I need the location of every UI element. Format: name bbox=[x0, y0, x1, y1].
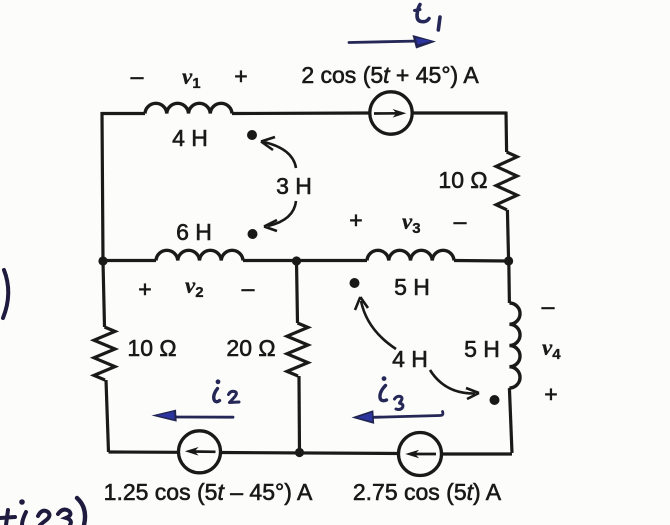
wire mid horizontal center bbox=[243, 259, 367, 262]
coupling arrow 3H lower bbox=[264, 201, 296, 231]
svg-text:2.75 cos (5t) A: 2.75 cos (5t) A bbox=[353, 479, 502, 505]
coupling dot on L2 bbox=[248, 229, 258, 239]
wire right lower vertical bbox=[509, 388, 512, 453]
handwritten arrow i3 bbox=[352, 410, 443, 424]
handwritten i3 label bbox=[380, 376, 403, 409]
svg-text:4 H: 4 H bbox=[172, 125, 208, 151]
wire right below mid bbox=[507, 261, 511, 303]
coupling arrow 4H lower bbox=[430, 370, 479, 399]
wire left vertical lower bbox=[106, 380, 109, 452]
svg-text:–: – bbox=[542, 293, 555, 319]
wire right upper vertical bbox=[504, 112, 508, 153]
inductor L4 5 H (right vertical) bbox=[509, 303, 520, 388]
inductor L3 5 H (middle-right) bbox=[367, 250, 454, 260]
junction node bottom-center bbox=[295, 448, 304, 457]
wire middle vertical upper bbox=[297, 261, 298, 323]
wire bottom left segment bbox=[109, 450, 180, 453]
inductor L2 6 H (middle) bbox=[156, 250, 243, 260]
coupling dot on L4 bbox=[490, 395, 500, 405]
handwritten i2 label bbox=[214, 379, 239, 402]
current source I3 2.75cos(5t) bbox=[399, 433, 442, 476]
svg-text:20 Ω: 20 Ω bbox=[226, 335, 275, 361]
svg-text:–: – bbox=[454, 208, 467, 234]
svg-text:–: – bbox=[242, 275, 255, 301]
wire mid horizontal left bbox=[103, 259, 156, 262]
svg-text:+: + bbox=[234, 63, 247, 89]
svg-text:4 H: 4 H bbox=[392, 346, 428, 372]
svg-text:5 H: 5 H bbox=[464, 336, 500, 362]
svg-text:2 cos (5t + 45°) A: 2 cos (5t + 45°) A bbox=[301, 62, 479, 88]
handwritten i1 label bbox=[415, 5, 441, 31]
svg-text:3 H: 3 H bbox=[276, 173, 312, 199]
wire top-left horizontal segment bbox=[101, 112, 145, 115]
junction node mid-center bbox=[292, 256, 301, 265]
resistor R1 10ohm (right) bbox=[496, 152, 517, 210]
coupling arrow 4H upper bbox=[355, 297, 396, 349]
coupling dot on L3 bbox=[350, 278, 360, 288]
handwritten paren left edge bbox=[3, 270, 8, 318]
svg-text:+: + bbox=[544, 381, 557, 407]
inductor L1 4 H (top) bbox=[145, 103, 232, 113]
wire middle vertical lower bbox=[297, 376, 301, 453]
coupling dot on L1 bbox=[247, 130, 257, 140]
wire right middle vertical bbox=[507, 210, 508, 261]
junction node right-mid bbox=[504, 256, 513, 265]
wire top-right horizontal segment bbox=[412, 111, 506, 114]
wire bottom middle segment bbox=[221, 453, 400, 454]
handwritten arrow i2 bbox=[152, 410, 234, 422]
svg-text:+: + bbox=[349, 207, 362, 233]
wire left vertical upper bbox=[102, 112, 103, 261]
wire left vertical below mid bbox=[103, 261, 105, 327]
svg-text:10 Ω: 10 Ω bbox=[127, 335, 176, 361]
svg-text:+: + bbox=[138, 276, 151, 302]
current source I2 1.25cos(5t-45) bbox=[179, 431, 221, 473]
coupling arrow 3H upper bbox=[261, 137, 296, 168]
svg-text:–: – bbox=[131, 63, 144, 89]
wire bottom right segment bbox=[442, 452, 513, 455]
junction node left-mid bbox=[98, 256, 107, 265]
resistor R2 10ohm (left) bbox=[94, 327, 115, 380]
current source I1 2cos(5t+45) bbox=[370, 92, 412, 134]
svg-text:6 H: 6 H bbox=[176, 219, 212, 245]
wire mid horizontal right bbox=[454, 259, 509, 263]
wire top middle segment bbox=[232, 111, 370, 115]
resistor R3 20ohm (middle) bbox=[287, 323, 308, 376]
handwritten arrow i1 bbox=[349, 35, 436, 49]
svg-text:10 Ω: 10 Ω bbox=[438, 167, 487, 193]
svg-text:5 H: 5 H bbox=[394, 274, 430, 300]
svg-text:1.25 cos (5t – 45°) A: 1.25 cos (5t – 45°) A bbox=[104, 479, 313, 505]
handwritten +i23) bottom left bbox=[0, 498, 85, 525]
